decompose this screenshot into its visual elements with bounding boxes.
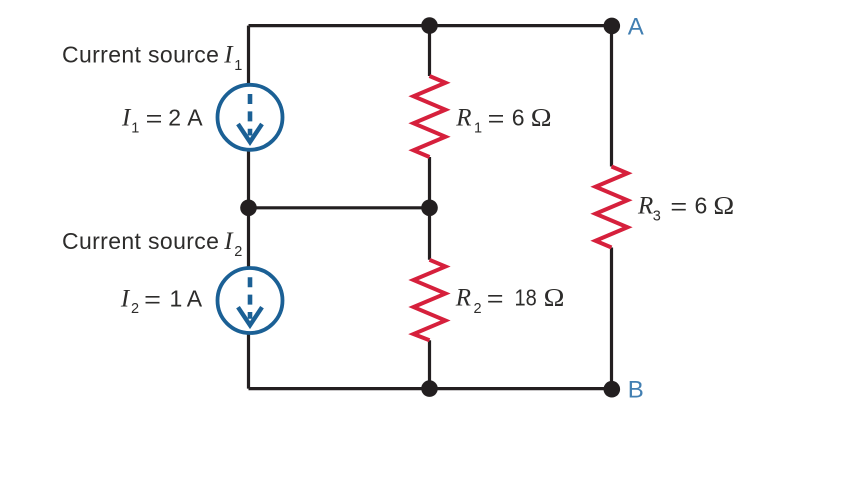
svg-text:B: B — [628, 376, 644, 403]
svg-text:I: I — [120, 285, 131, 312]
wire right vertical segment bottom — [610, 248, 613, 389]
svg-text:A: A — [628, 14, 644, 41]
label Current source I1 — [62, 42, 242, 74]
svg-text:3: 3 — [653, 209, 661, 225]
value label I2 = 1 A — [120, 285, 203, 317]
svg-text:2: 2 — [474, 301, 482, 317]
svg-text:2: 2 — [131, 301, 139, 317]
svg-text:=: = — [488, 105, 505, 132]
svg-text:6: 6 — [695, 193, 708, 219]
svg-text:I: I — [223, 42, 234, 69]
resistor R2 — [414, 260, 446, 341]
wire left vertical — [247, 26, 250, 389]
node dot mid middle — [421, 200, 438, 217]
node dot bottom middle — [421, 380, 438, 397]
value label R3 = 6 ohm — [637, 191, 734, 225]
svg-text:Ω: Ω — [713, 191, 734, 219]
svg-text:=: = — [487, 285, 504, 312]
svg-text:Current source: Current source — [62, 228, 219, 254]
wire top horizontal — [249, 24, 612, 27]
wire bottom horizontal — [249, 387, 612, 390]
node B dot — [604, 381, 621, 398]
svg-text:18: 18 — [515, 284, 537, 311]
resistor R1 — [414, 76, 446, 157]
current source I1 — [218, 85, 283, 150]
svg-text:Ω: Ω — [544, 283, 565, 311]
svg-text:Ω: Ω — [531, 103, 552, 131]
svg-text:Current source: Current source — [62, 42, 219, 68]
wire right vertical segment top — [610, 26, 613, 167]
node dot mid left — [240, 200, 257, 217]
wire middle horizontal — [249, 206, 430, 209]
label Current source I2 — [62, 228, 242, 260]
wire middle vertical segment mid — [428, 157, 431, 260]
svg-text:1: 1 — [474, 120, 482, 136]
svg-text:A: A — [187, 104, 203, 130]
value label R1 = 6 ohm — [455, 103, 551, 137]
svg-text:6: 6 — [512, 104, 525, 130]
current source I2 — [218, 268, 283, 333]
svg-text:I: I — [223, 228, 234, 255]
svg-text:R: R — [637, 193, 653, 220]
svg-text:2: 2 — [234, 244, 242, 260]
resistor R3 — [596, 167, 628, 248]
svg-text:1: 1 — [131, 120, 139, 136]
svg-text:R: R — [455, 285, 471, 312]
svg-text:=: = — [144, 286, 161, 313]
svg-text:1: 1 — [170, 285, 183, 311]
svg-text:A: A — [187, 285, 203, 311]
svg-text:R: R — [455, 104, 471, 131]
svg-text:=: = — [146, 105, 163, 132]
svg-text:2: 2 — [168, 104, 181, 130]
wire middle vertical segment bottom — [428, 340, 431, 388]
node dot top middle — [421, 17, 438, 34]
value label R2 = 18 ohm — [455, 283, 565, 317]
svg-text:1: 1 — [234, 58, 242, 74]
svg-text:=: = — [670, 193, 687, 220]
wire middle vertical segment top — [428, 26, 431, 76]
node A dot — [604, 18, 621, 35]
value label I1 = 2 A — [121, 104, 203, 136]
